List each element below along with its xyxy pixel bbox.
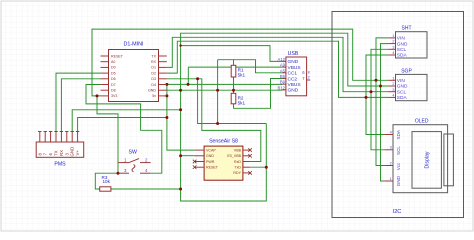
svg-text:4: 4 [392, 51, 394, 55]
wire D1 to I2C bus line 3 to SGP SCL [167, 37, 388, 91]
group box I2C [332, 12, 464, 218]
svg-text:RESET: RESET [206, 166, 219, 170]
svg-text:A12: A12 [278, 57, 286, 62]
junction CC1 vertical / TxD line [216, 122, 219, 125]
junction at 3V3 pin node [96, 94, 99, 97]
junction SDA column / SGP row4 [365, 96, 368, 99]
wire R1 bottom to R2 top through GND row [233, 77, 235, 93]
svg-text:USB: USB [288, 51, 299, 57]
junction D3 row / TxD riser [196, 77, 199, 80]
sensor SGP [388, 68, 427, 101]
svg-text:5k1: 5k1 [238, 101, 246, 106]
module U1 D1-MINI [101, 42, 167, 102]
connector J1 USB [278, 51, 311, 96]
svg-text:PMS: PMS [54, 162, 66, 168]
svg-text:GND: GND [288, 88, 299, 94]
display OLED [384, 119, 453, 193]
svg-text:SW: SW [129, 150, 137, 156]
svg-text:SenseAir S8: SenseAir S8 [209, 139, 238, 145]
svg-text:5k1: 5k1 [238, 73, 246, 78]
wire R2 bottom to USB B5 CC2 [234, 79, 283, 109]
svg-text:A9: A9 [280, 63, 286, 68]
svg-text:I2C: I2C [393, 209, 402, 215]
wire S8 GND tap [181, 155, 195, 157]
svg-text:GND: GND [396, 175, 401, 186]
svg-text:GND: GND [397, 41, 408, 47]
svg-text:VBUS: VBUS [288, 65, 301, 71]
svg-text:RxD: RxD [234, 160, 241, 164]
svg-text:B9: B9 [280, 80, 286, 85]
svg-text:2: 2 [392, 82, 394, 86]
svg-text:10k: 10k [103, 179, 111, 184]
svg-text:SCL: SCL [397, 89, 407, 95]
junction 5v / VBUS line [165, 83, 168, 86]
junction GND / PMS GND [179, 108, 182, 111]
sensor U2 SenseAir S8 [193, 139, 252, 181]
wire 5v riser to USB A9 [166, 84, 168, 96]
svg-text:D1-MINI: D1-MINI [123, 42, 143, 48]
svg-text:VIN: VIN [397, 36, 406, 42]
svg-text:1: 1 [390, 177, 392, 181]
svg-text:SCL: SCL [397, 47, 407, 53]
wire S8 TxD feed line [198, 79, 267, 124]
junction GND row / CC1 vertical [216, 89, 219, 92]
wire D5 to PMS TX [56, 73, 101, 131]
svg-text:D2: D2 [151, 71, 156, 75]
wire R3 right to GND vertical [111, 188, 181, 190]
wire SDA column SHT4-SGP4-OLED4 [366, 55, 388, 135]
svg-text:2: 2 [390, 161, 392, 165]
svg-text:GND: GND [206, 154, 214, 158]
wire D7 to SW pin4 [86, 85, 162, 174]
svg-text:Display: Display [425, 151, 431, 168]
wire GND row D1-MINI to USB B12 [167, 89, 283, 91]
wire GND riser to I2C bus line 2 to SGP GND [181, 33, 389, 90]
wire D3 to S8 RxD [167, 79, 261, 162]
svg-text:SGP: SGP [401, 68, 412, 74]
svg-text:SDA: SDA [396, 129, 401, 139]
svg-text:TX: TX [54, 150, 59, 156]
svg-text:CC2: CC2 [288, 76, 298, 82]
svg-text:V+: V+ [75, 150, 80, 156]
svg-text:3: 3 [392, 88, 394, 92]
junction GND column / SGP row2 [379, 85, 382, 88]
svg-text:1: 1 [392, 34, 394, 38]
svg-text:8: 8 [308, 70, 310, 74]
svg-text:2: 2 [308, 75, 310, 79]
svg-text:OLED: OLED [415, 119, 429, 125]
svg-text:CC1: CC1 [288, 71, 298, 77]
svg-text:VCAP: VCAP [206, 148, 216, 152]
resistor R3 10k [100, 175, 111, 191]
svg-text:RESET: RESET [111, 54, 124, 58]
svg-text:E0_VBB: E0_VBB [227, 154, 241, 158]
wire CC1 vertical at 217.6 [217, 60, 219, 124]
svg-text:3: 3 [392, 45, 394, 49]
svg-text:RX: RX [59, 150, 64, 156]
junction SCL column / SGP row3 [370, 90, 373, 93]
junction GND / R3 right [179, 188, 182, 191]
svg-text:D7: D7 [111, 83, 116, 87]
svg-text:VIN: VIN [397, 78, 406, 84]
svg-text:1: 1 [392, 76, 394, 80]
no-connect crosses [193, 148, 252, 174]
svg-text:D6: D6 [111, 77, 116, 81]
svg-text:SDA: SDA [397, 53, 408, 59]
svg-text:SCL: SCL [396, 146, 401, 155]
svg-text:5v: 5v [152, 94, 156, 98]
svg-text:A0: A0 [111, 60, 115, 64]
svg-text:A5: A5 [280, 68, 286, 73]
wire D6 to PMS RX [61, 79, 100, 132]
svg-text:TX: TX [151, 54, 156, 58]
svg-text:GND: GND [288, 59, 299, 65]
resistor R1 5k1 [231, 65, 245, 77]
svg-text:D0: D0 [111, 66, 116, 70]
svg-text:VBB: VBB [234, 148, 242, 152]
svg-text:3: 3 [390, 146, 392, 150]
svg-text:B12: B12 [278, 85, 286, 90]
svg-text:PWR: PWR [206, 160, 215, 164]
switch actuator [129, 159, 139, 163]
svg-text:RDY: RDY [233, 171, 241, 175]
wire S8 TxD stub to vertical [250, 166, 266, 168]
left pins D1-MINI [101, 56, 109, 96]
wire 3V3 riser to I2C bus line 1 to SGP VIN [92, 29, 388, 96]
svg-text:GND: GND [397, 84, 408, 90]
right pins D1-MINI [159, 56, 167, 96]
junction at 5v pin node [165, 94, 168, 97]
junction GND row / R1 R2 [232, 89, 235, 92]
wire 5v down to S8 VCAP [167, 96, 195, 150]
svg-text:Vcc: Vcc [396, 162, 401, 170]
wire 3V3 branch down to SW pin3 [97, 96, 118, 173]
switch SW [118, 150, 150, 174]
svg-text:D1: D1 [151, 66, 156, 70]
svg-text:RX: RX [151, 60, 157, 64]
wire 5v to USB B9 [167, 83, 283, 85]
wire R1 top to USB A5 CC1 [218, 60, 283, 73]
wire GND column SHT2-SGP2-OLED1 [381, 44, 389, 181]
junction GND / S8 GND [179, 154, 182, 157]
sensor SHT [388, 26, 427, 59]
svg-text:SHT: SHT [402, 26, 412, 32]
junction GND riser / A12 feed [179, 44, 181, 46]
svg-text:D5: D5 [111, 71, 116, 75]
svg-text:D4: D4 [151, 83, 156, 87]
wire PMS GND to GND vertical [72, 110, 180, 132]
svg-text:GND: GND [70, 147, 75, 157]
svg-text:3V3: 3V3 [111, 94, 117, 98]
svg-text:GND: GND [148, 89, 156, 93]
wire SCL column SHT3-SGP3-OLED3 [371, 49, 388, 150]
junction VBUS line / A9 riser [187, 83, 190, 86]
svg-text:SDA: SDA [397, 95, 408, 101]
wire D2 to I2C bus line 4 to SGP SDA [167, 41, 388, 97]
wire VIN column SHT1-SGP1-OLED2 [376, 38, 388, 166]
svg-text:VBUS: VBUS [288, 82, 301, 88]
svg-text:B5: B5 [280, 74, 286, 79]
wire PMS V+ to 5v vertical [78, 118, 167, 132]
junction GND row / GND riser [179, 89, 182, 92]
svg-text:4: 4 [390, 130, 392, 134]
wire GND to USB A12 [181, 46, 283, 85]
svg-text:4: 4 [392, 94, 394, 98]
connector PMS [36, 132, 83, 168]
svg-text:D8: D8 [111, 89, 116, 93]
junction 5v / PMS V+ [165, 116, 168, 119]
svg-text:D3: D3 [151, 77, 156, 81]
wire GND vertical down to bottom rail to S8 TxD vertical [181, 90, 267, 201]
wire R3 left to SW pin3 node [95, 173, 118, 189]
junction at SW pin3 / R3 node [117, 172, 120, 175]
junction S8 TxD node [265, 166, 268, 169]
svg-text:TxD: TxD [234, 166, 241, 170]
svg-text:2: 2 [392, 40, 394, 44]
resistor R2 5k1 [231, 93, 245, 105]
junction VIN column / SGP row1 [375, 79, 378, 82]
